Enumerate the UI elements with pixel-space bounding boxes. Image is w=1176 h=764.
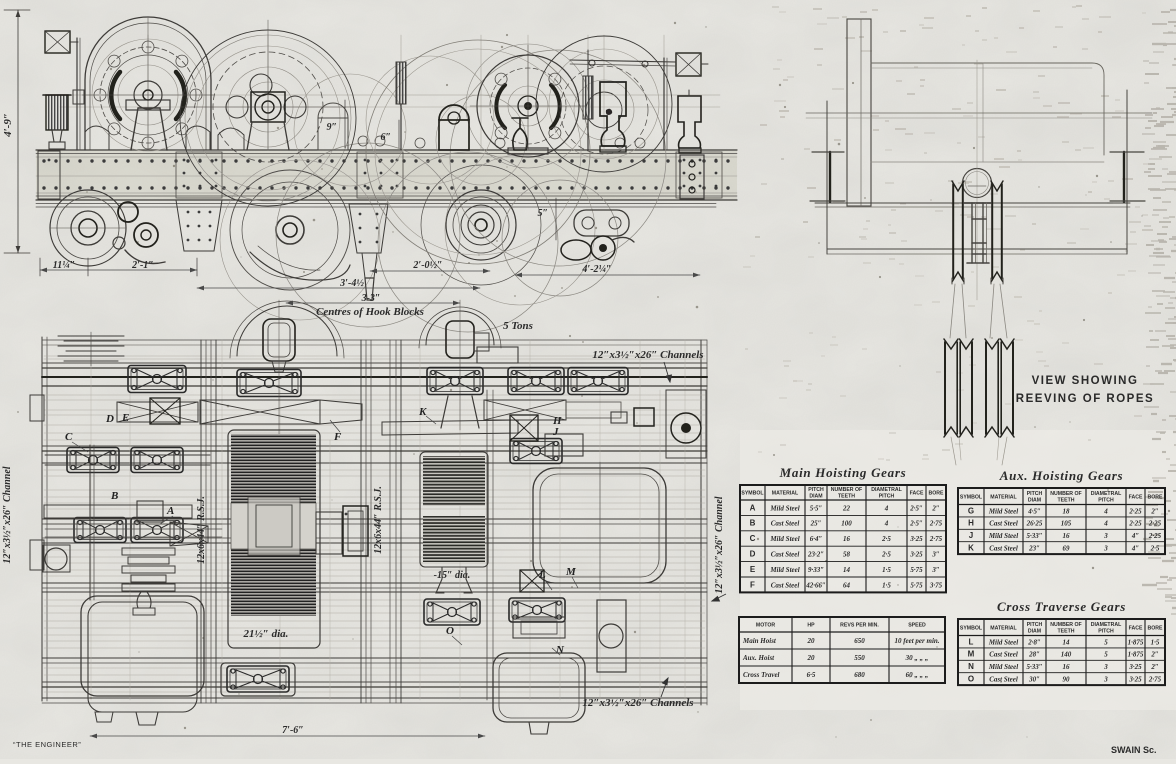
svg-text:23·2″: 23·2″ — [807, 551, 824, 559]
svg-text:M: M — [565, 566, 577, 578]
svg-text:16: 16 — [1063, 663, 1071, 671]
long shaft centrelines — [60, 94, 720, 96]
svg-text:DIAMETRAL: DIAMETRAL — [871, 487, 902, 493]
svg-text:5″: 5″ — [537, 208, 548, 219]
svg-text:M: M — [968, 650, 975, 659]
svg-text:Cast Steel: Cast Steel — [989, 520, 1018, 528]
svg-text:B: B — [110, 490, 118, 502]
drum coupling right — [316, 512, 342, 554]
ropes — [950, 284, 955, 338]
svg-text:14: 14 — [843, 566, 851, 574]
hook shank — [362, 253, 377, 278]
svg-text:2·5: 2·5 — [881, 551, 891, 559]
svg-text:Cast Steel: Cast Steel — [771, 520, 800, 528]
main girder side elevation — [36, 151, 737, 200]
svg-text:SYMBOL: SYMBOL — [960, 494, 983, 500]
svg-text:4: 4 — [884, 504, 889, 512]
bearing row 4 — [424, 599, 480, 625]
gear B hub and holes — [226, 96, 248, 118]
svg-text:9″: 9″ — [326, 122, 337, 133]
left channel end — [826, 101, 828, 204]
svg-text:FACE: FACE — [910, 491, 924, 497]
pillow block dark — [439, 120, 469, 150]
svg-text:3: 3 — [1103, 676, 1108, 684]
svg-text:E: E — [750, 565, 756, 574]
svg-text:L: L — [969, 637, 974, 646]
svg-text:PITCH: PITCH — [1027, 622, 1043, 628]
svg-text:1·5: 1·5 — [1151, 638, 1160, 646]
left RSJ vertical — [200, 340, 202, 703]
pinion mesh detail left — [118, 202, 138, 222]
svg-text:5·75: 5·75 — [910, 581, 923, 589]
svg-text:2″: 2″ — [1150, 507, 1159, 515]
shaft A lines — [45, 523, 222, 525]
svg-text:2·8″: 2·8″ — [1027, 638, 1041, 646]
svg-text:2·75: 2·75 — [1148, 676, 1162, 684]
svg-text:D: D — [750, 550, 756, 559]
svg-text:Aux. Hoisting Gears: Aux. Hoisting Gears — [999, 468, 1123, 483]
hatched rod mid — [396, 62, 406, 104]
svg-text:6·5: 6·5 — [807, 671, 816, 679]
svg-text:3·25: 3·25 — [909, 535, 923, 543]
svg-text:PITCH: PITCH — [1098, 628, 1114, 634]
svg-text:22: 22 — [842, 504, 851, 512]
svg-text:3″: 3″ — [931, 551, 940, 559]
svg-text:7′-6″: 7′-6″ — [282, 725, 304, 736]
small detail circles on girder top — [358, 136, 368, 146]
svg-text:3″: 3″ — [931, 566, 940, 574]
svg-text:C: C — [750, 534, 756, 543]
hook block 1 plan with ghost arcs — [237, 306, 337, 356]
svg-text:2″: 2″ — [1150, 663, 1159, 671]
svg-text:3·25: 3·25 — [1128, 663, 1142, 671]
svg-text:100: 100 — [841, 520, 852, 528]
gear B pedestal — [247, 122, 289, 150]
svg-text:4·5″: 4·5″ — [1027, 507, 1041, 515]
svg-text:5·75: 5·75 — [910, 566, 923, 574]
runway rail lines — [806, 112, 1152, 114]
girder rivets — [42, 159, 45, 162]
left edge bracket — [30, 395, 44, 421]
small dark box B — [634, 408, 654, 426]
svg-text:25″: 25″ — [810, 520, 822, 528]
svg-text:MATERIAL: MATERIAL — [990, 625, 1017, 631]
gear wheel B large circle — [180, 30, 356, 206]
X-braced tie bar right top — [484, 400, 566, 420]
svg-text:H: H — [968, 519, 974, 528]
X-braced tie bar D-E — [117, 402, 198, 422]
svg-text:9·33″: 9·33″ — [808, 566, 824, 574]
svg-text:VIEW SHOWING: VIEW SHOWING — [1032, 375, 1139, 387]
svg-text:O: O — [968, 675, 974, 684]
svg-text:2·25: 2·25 — [1148, 532, 1162, 540]
svg-text:DIAM: DIAM — [1028, 628, 1041, 634]
legs to drum2 — [441, 396, 479, 428]
svg-text:4″: 4″ — [1131, 532, 1140, 540]
goblet buffer far right — [678, 96, 701, 148]
svg-text:1·5: 1·5 — [882, 566, 891, 574]
bottom frame beams — [815, 202, 1130, 204]
brake wheel D pedestal goblet — [512, 118, 528, 150]
brake linkage bar top right — [570, 60, 676, 62]
svg-text:MATERIAL: MATERIAL — [772, 491, 799, 497]
brake magnet box top right — [676, 53, 701, 76]
main hoist motor — [81, 596, 204, 696]
brake cylinder left — [46, 95, 68, 130]
girder end plate left — [38, 151, 60, 199]
svg-text:2′-1″: 2′-1″ — [131, 260, 154, 271]
svg-text:F: F — [333, 431, 342, 443]
gusset plate at 180 — [176, 200, 222, 251]
svg-text:12x6x44″ R.S.J.: 12x6x44″ R.S.J. — [196, 496, 207, 564]
rope tails below — [951, 437, 956, 465]
svg-text:10 feet per min.: 10 feet per min. — [894, 637, 939, 645]
drum A arch housing — [85, 17, 211, 150]
cylinder unit right — [597, 600, 626, 672]
svg-text:2″: 2″ — [1150, 651, 1159, 659]
drum A inner wheel — [100, 47, 196, 143]
svg-text:REVS PER MIN.: REVS PER MIN. — [840, 623, 879, 629]
svg-text:Mild Steel: Mild Steel — [988, 663, 1018, 671]
svg-text:DIAMETRAL: DIAMETRAL — [1091, 491, 1122, 497]
svg-text:20: 20 — [807, 637, 816, 645]
reeving column — [847, 19, 871, 206]
X-braced tie bar F — [200, 400, 320, 424]
brake rod right — [663, 58, 665, 150]
svg-text:5: 5 — [1104, 638, 1108, 646]
svg-text:2·75: 2·75 — [929, 535, 943, 543]
svg-text:2·25: 2·25 — [1128, 520, 1142, 528]
cross traverse motor — [493, 653, 585, 722]
svg-text:2′-0½″: 2′-0½″ — [412, 260, 442, 271]
svg-text:TEETH: TEETH — [1057, 628, 1074, 634]
svg-text:18: 18 — [1063, 507, 1071, 515]
svg-text:Mild Steel: Mild Steel — [769, 566, 799, 574]
svg-text:Cast Steel: Cast Steel — [989, 676, 1018, 684]
svg-text:E: E — [121, 412, 129, 424]
svg-text:Mild Steel: Mild Steel — [988, 507, 1018, 515]
svg-text:2″: 2″ — [931, 504, 940, 512]
ink blot — [606, 109, 612, 115]
svg-text:B: B — [750, 519, 756, 528]
svg-text:680: 680 — [854, 671, 865, 679]
svg-text:D: D — [105, 413, 114, 425]
svg-text:23″: 23″ — [1028, 545, 1040, 553]
svg-text:A: A — [750, 503, 756, 512]
top sheave — [963, 169, 992, 198]
svg-text:3·25: 3·25 — [1128, 676, 1142, 684]
svg-text:PITCH: PITCH — [879, 494, 895, 500]
pulley stack top left — [58, 335, 124, 337]
svg-text:DIAM: DIAM — [1028, 497, 1041, 503]
svg-text:Cross Travel: Cross Travel — [743, 671, 780, 679]
svg-text:12x6x44″ R.S.J.: 12x6x44″ R.S.J. — [373, 486, 384, 554]
svg-text:C: C — [65, 431, 73, 443]
svg-text:FACE: FACE — [1129, 625, 1143, 631]
travel wheel W3 — [421, 165, 541, 285]
svg-text:BORE: BORE — [1148, 494, 1164, 500]
svg-text:5: 5 — [1104, 651, 1108, 659]
shaft C horizontal — [45, 454, 210, 456]
mid RSJ vertical — [360, 340, 362, 703]
svg-text:O: O — [446, 625, 454, 637]
big drum circle C — [366, 40, 590, 264]
drum A pedestal — [131, 108, 167, 150]
svg-text:MOTOR: MOTOR — [756, 623, 775, 629]
gear wheel E right — [536, 36, 672, 172]
svg-text:SPEED: SPEED — [908, 623, 926, 629]
brake lever curves under girder — [250, 252, 350, 280]
svg-text:G: G — [968, 506, 974, 515]
svg-text:REEVING OF ROPES: REEVING OF ROPES — [1016, 393, 1154, 405]
svg-text:2·5″: 2·5″ — [909, 520, 923, 528]
svg-text:Cross Traverse Gears: Cross Traverse Gears — [997, 599, 1126, 614]
right brake pulley — [666, 390, 706, 458]
svg-text:140: 140 — [1061, 651, 1072, 659]
travel wheel W1 — [50, 190, 126, 266]
travel wheel W2 — [230, 170, 350, 290]
aux hoist motor — [533, 468, 666, 583]
elevation dimension lines — [40, 269, 197, 271]
svg-text:HP: HP — [807, 623, 815, 629]
svg-text:DIAM: DIAM — [809, 494, 822, 500]
extra concentric detail circles — [228, 67, 308, 147]
traverse shaft L gear — [520, 570, 544, 592]
reeving caption — [1016, 375, 1154, 405]
aux drum bottom bracket — [432, 567, 476, 593]
svg-text:SYMBOL: SYMBOL — [960, 625, 983, 631]
svg-text:3·75: 3·75 — [929, 581, 943, 589]
svg-text:TEETH: TEETH — [1057, 497, 1074, 503]
svg-text:4′-2¼″: 4′-2¼″ — [581, 264, 611, 275]
plan frame outer — [41, 337, 43, 701]
svg-text:Main Hoisting Gears: Main Hoisting Gears — [779, 465, 907, 480]
svg-text:69: 69 — [1063, 545, 1071, 553]
svg-text:58: 58 — [843, 551, 851, 559]
inner vertical right — [486, 390, 488, 700]
svg-text:BORE: BORE — [929, 491, 945, 497]
svg-text:60 „ „ „: 60 „ „ „ — [906, 671, 929, 679]
svg-text:FACE: FACE — [1129, 494, 1143, 500]
svg-text:K: K — [968, 544, 974, 553]
gear mesh X-hatch top-left — [150, 398, 180, 424]
crab body ghost box — [871, 63, 1104, 155]
svg-text:3: 3 — [1103, 545, 1108, 553]
pillow block mid — [318, 118, 348, 150]
aux drum 15in — [420, 452, 488, 567]
svg-text:J: J — [969, 531, 973, 540]
svg-text:1·5: 1·5 — [882, 581, 891, 589]
bearing bottom — [221, 663, 295, 696]
svg-text:20: 20 — [807, 654, 816, 662]
svg-text:2·75: 2·75 — [929, 520, 943, 528]
svg-text:NUMBER OF: NUMBER OF — [1050, 622, 1081, 628]
centre link ladder — [964, 202, 991, 204]
svg-text:28″: 28″ — [1028, 651, 1040, 659]
left vertical shaft — [89, 445, 91, 600]
svg-text:1·875: 1·875 — [1128, 638, 1144, 646]
svg-text:N: N — [968, 662, 974, 671]
svg-text:Cast Steel: Cast Steel — [989, 651, 1018, 659]
svg-text:2·25: 2·25 — [1148, 520, 1162, 528]
crank handle — [561, 240, 591, 260]
svg-text:Mild Steel: Mild Steel — [769, 535, 799, 543]
svg-text:L: L — [538, 569, 546, 581]
svg-text:Cast Steel: Cast Steel — [771, 551, 800, 559]
svg-text:Centres of Hook Blocks: Centres of Hook Blocks — [316, 306, 424, 318]
svg-text:5·5″: 5·5″ — [810, 504, 823, 512]
svg-text:SWAIN Sc.: SWAIN Sc. — [1111, 745, 1157, 755]
brake rod left — [76, 38, 78, 150]
svg-text:64: 64 — [843, 581, 851, 589]
svg-text:30 „ „ „: 30 „ „ „ — [905, 654, 929, 662]
brake wheel D — [477, 55, 579, 157]
wedge bracket right of A — [170, 522, 208, 546]
top channel rail — [42, 362, 707, 364]
svg-text:4′-9″: 4′-9″ — [2, 113, 14, 138]
svg-text:PITCH: PITCH — [1027, 491, 1043, 497]
svg-text:12″x3½″x26″ Channels: 12″x3½″x26″ Channels — [582, 697, 693, 709]
extra faint gear circles elevation — [196, 46, 340, 190]
splice plates with rivet clusters — [176, 152, 222, 198]
svg-text:2·5″: 2·5″ — [909, 504, 923, 512]
svg-text:650: 650 — [854, 637, 865, 645]
svg-text:1·875: 1·875 — [1128, 651, 1144, 659]
svg-text:Main Hoist: Main Hoist — [742, 637, 777, 645]
svg-text:3: 3 — [1103, 663, 1108, 671]
bearing row 1 — [128, 366, 186, 393]
svg-text:Cast Steel: Cast Steel — [771, 581, 800, 589]
svg-text:12″x3½″x26″ Channel: 12″x3½″x26″ Channel — [714, 496, 725, 593]
svg-text:4: 4 — [1103, 507, 1108, 515]
svg-text:3: 3 — [1103, 532, 1108, 540]
left height dimension 4-9 — [17, 10, 19, 253]
svg-text:4: 4 — [884, 520, 889, 528]
svg-text:NUMBER OF: NUMBER OF — [1050, 491, 1081, 497]
svg-text:K: K — [418, 406, 427, 418]
svg-text:N: N — [555, 644, 565, 656]
right channel end — [1126, 90, 1128, 204]
traverse gearbox parts LMN — [513, 617, 565, 638]
lower hook block sheaves — [944, 342, 946, 434]
hook gusset plate centre — [349, 204, 388, 253]
svg-text:550: 550 — [854, 654, 865, 662]
svg-text:-15″ dia.: -15″ dia. — [434, 570, 471, 581]
svg-text:30″: 30″ — [1028, 676, 1040, 684]
svg-text:J: J — [552, 426, 559, 438]
svg-text:4″: 4″ — [1131, 545, 1140, 553]
svg-text:DIAMETRAL: DIAMETRAL — [1091, 622, 1122, 628]
svg-text:14: 14 — [1063, 638, 1071, 646]
svg-text:26·25: 26·25 — [1026, 520, 1043, 528]
svg-text:2·5: 2·5 — [1150, 545, 1160, 553]
svg-text:BORE: BORE — [1148, 625, 1164, 631]
svg-text:NUMBER OF: NUMBER OF — [831, 487, 862, 493]
svg-text:Aux. Hoist: Aux. Hoist — [742, 654, 775, 662]
svg-text:“T​HE E​NGINEER”: “T​HE E​NGINEER” — [13, 740, 81, 749]
svg-text:6·4″: 6·4″ — [810, 535, 823, 543]
svg-text:A: A — [166, 505, 174, 517]
K bar — [382, 420, 518, 435]
goblet post right-mid — [600, 82, 626, 146]
sheave cheek plates — [952, 184, 954, 278]
svg-text:Cast Steel: Cast Steel — [989, 545, 1018, 553]
traverse shaft rail — [42, 582, 707, 584]
svg-text:42·66″: 42·66″ — [805, 581, 826, 589]
bottom dimension 7-6 — [90, 735, 485, 737]
svg-text:11¼″: 11¼″ — [53, 260, 75, 271]
drum shaft boss — [248, 497, 300, 555]
svg-text:Mild Steel: Mild Steel — [769, 504, 799, 512]
end bracket right with holes — [680, 155, 704, 199]
svg-text:Mild Steel: Mild Steel — [988, 532, 1018, 540]
bearing row 2 — [67, 448, 119, 473]
left small gear circle — [43, 545, 70, 572]
mid rail (shaft AB) — [42, 518, 707, 520]
svg-text:Mild Steel: Mild Steel — [988, 638, 1018, 646]
svg-text:3-3″: 3-3″ — [361, 293, 381, 304]
hook block 2 plan — [426, 311, 494, 345]
svg-text:12″x3½″x26″ Channel: 12″x3½″x26″ Channel — [2, 466, 13, 563]
H J cluster — [510, 415, 538, 441]
lower girder chord — [36, 203, 716, 205]
oval plate below girder right — [574, 210, 629, 236]
main drum 21.5in — [228, 430, 320, 648]
svg-text:6″: 6″ — [380, 132, 391, 143]
svg-text:12″x3½″x26″ Channels: 12″x3½″x26″ Channels — [592, 349, 703, 361]
svg-text:TEETH: TEETH — [838, 494, 855, 500]
svg-text:5 Tons: 5 Tons — [503, 320, 533, 332]
rail 2 — [42, 445, 707, 447]
svg-text:4: 4 — [1103, 520, 1108, 528]
svg-text:16: 16 — [843, 535, 851, 543]
svg-text:MATERIAL: MATERIAL — [990, 494, 1017, 500]
svg-text:105: 105 — [1061, 520, 1072, 528]
svg-text:PITCH: PITCH — [808, 487, 824, 493]
governor stack — [122, 548, 175, 555]
svg-text:5·33″: 5·33″ — [1026, 663, 1042, 671]
svg-text:16: 16 — [1063, 532, 1071, 540]
bearing row 3 — [74, 518, 126, 543]
svg-text:5·33″: 5·33″ — [1026, 532, 1042, 540]
bottom channel rail — [42, 657, 707, 659]
svg-text:21½″ dia.: 21½″ dia. — [243, 628, 289, 640]
ghost circles below girder — [276, 143, 460, 327]
svg-text:PITCH: PITCH — [1098, 497, 1114, 503]
svg-text:SYMBOL: SYMBOL — [741, 491, 764, 497]
brake magnet box top-left — [45, 31, 70, 53]
svg-text:2·5: 2·5 — [881, 535, 891, 543]
svg-text:2·25: 2·25 — [1128, 507, 1142, 515]
svg-text:F: F — [750, 580, 755, 589]
svg-text:3·25: 3·25 — [909, 551, 923, 559]
faint intermediate plan lines — [44, 355, 705, 357]
hatched rod right — [583, 76, 593, 119]
shaft A/B bar with boss — [44, 505, 192, 518]
svg-text:90: 90 — [1063, 676, 1071, 684]
svg-text:3′-4½: 3′-4½ — [339, 278, 364, 289]
